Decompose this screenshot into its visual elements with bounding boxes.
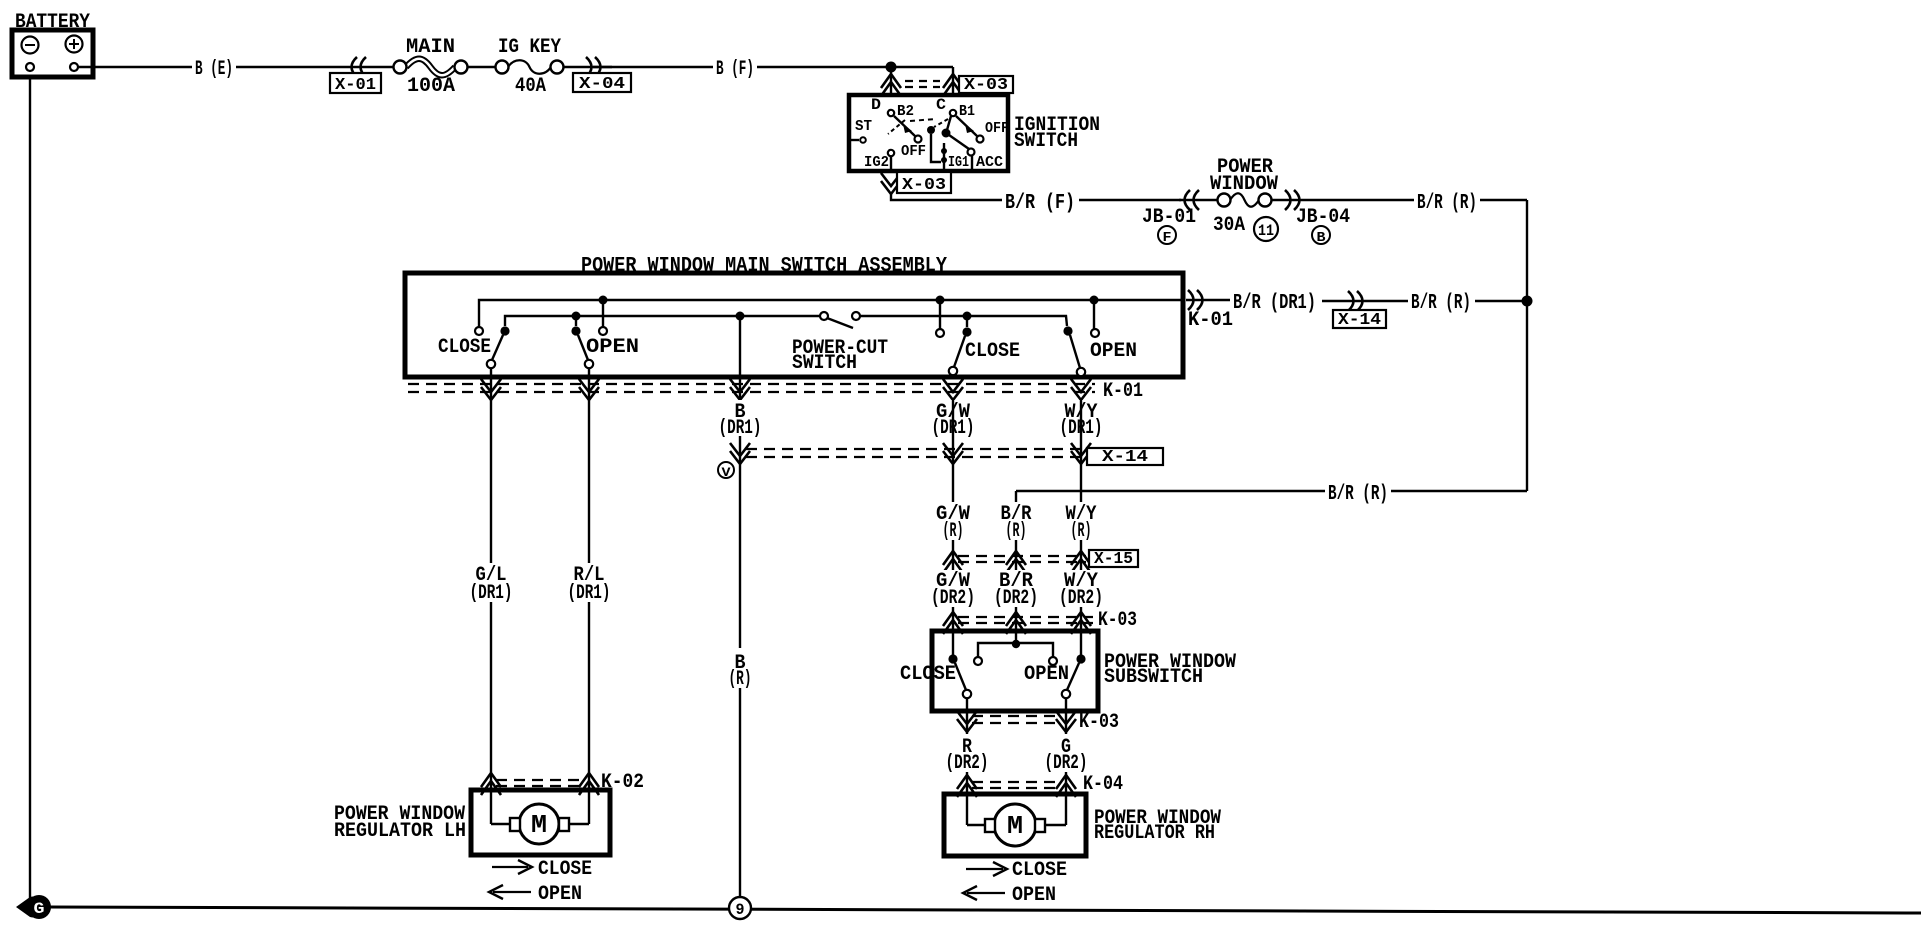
label B/R(DR1) [1233, 292, 1316, 315]
terminal IG2 [864, 150, 894, 171]
connector K-03 upper chevron 1 [943, 612, 963, 634]
ground node 9 circled [729, 897, 751, 919]
motor M LH [491, 804, 589, 844]
label X-14 row box [1087, 448, 1163, 467]
connector X-15 chevron 3 [1071, 551, 1091, 573]
label W/Y (R) column [1062, 502, 1102, 543]
wire B/R(R) X-14 to junction [1475, 300, 1527, 302]
svg-text:SWITCH: SWITCH [792, 352, 857, 375]
wire fuse MAIN to fuse IG KEY [467, 66, 496, 68]
power window regulator LH box [471, 790, 610, 855]
connector X-15 chevron 2 [1006, 551, 1026, 573]
connector K-03 lower chevron 1 [957, 711, 977, 732]
node lower bus 2 [736, 312, 745, 321]
label K-02 [601, 771, 644, 794]
label POWER WINDOW REGULATOR RH [1094, 807, 1221, 845]
main switch lower bus right [860, 316, 1067, 326]
connector JB-01 [1142, 190, 1199, 246]
svg-text:(R): (R) [1071, 520, 1092, 543]
node B/R(R) junction [1522, 296, 1533, 307]
label G/W (DR2) [930, 570, 976, 610]
connector K-01 chevron 1 [481, 379, 501, 400]
left close switch [438, 326, 510, 368]
wire B(F) branch to terminal B2 [890, 67, 892, 97]
wire JB-01 to fuse POWER WINDOW [1179, 199, 1218, 201]
label K-03 upper [1098, 609, 1137, 632]
svg-text:WINDOW: WINDOW [1210, 173, 1278, 196]
svg-text:OPEN: OPEN [538, 883, 582, 906]
wire B(F) branch to terminal B1 [952, 67, 954, 97]
svg-text:9: 9 [736, 901, 745, 919]
svg-text:(DR1): (DR1) [470, 582, 513, 605]
terminal B1 [950, 103, 975, 120]
label C [936, 96, 946, 114]
subswitch bus contact left [974, 657, 982, 665]
wire R/L(DR1) left open to regulator [588, 368, 590, 824]
svg-text:(R): (R) [943, 520, 964, 543]
svg-text:K-01: K-01 [1103, 380, 1143, 403]
arrow open LH [489, 883, 582, 906]
svg-text:(DR1): (DR1) [568, 582, 611, 605]
label B/R (R) column [997, 502, 1037, 543]
connector K-01 chevron 4 [943, 379, 963, 400]
fuse POWER WINDOW 30A [1210, 156, 1278, 237]
svg-text:M: M [1007, 811, 1023, 841]
svg-text:100A: 100A [407, 75, 455, 98]
svg-text:B (E): B (E) [195, 58, 233, 81]
connector K-04 chevron 2 [1056, 775, 1076, 797]
svg-text:SWITCH: SWITCH [1014, 130, 1078, 153]
svg-text:X-15: X-15 [1094, 550, 1133, 569]
svg-text:IG1: IG1 [948, 154, 969, 171]
svg-text:(DR2): (DR2) [994, 587, 1038, 610]
node B(F) junction [886, 62, 897, 73]
node upper bus 2 [936, 296, 945, 305]
connector K-01 chevron 2 [579, 379, 599, 400]
label B/R(R) branch [1328, 483, 1388, 506]
wire B(E) battery positive to fuse MAIN [78, 66, 394, 68]
connector K-04 chevron 1 [957, 775, 977, 797]
fuse IG KEY 40A [496, 36, 564, 98]
terminal B2 [888, 103, 914, 120]
motor M RH [967, 804, 1066, 846]
left open switch [571, 300, 639, 368]
connector K-02 chevron 2 [579, 773, 599, 795]
svg-text:CLOSE: CLOSE [438, 336, 491, 359]
ignition lever B1-ACC [942, 116, 1004, 171]
svg-text:CLOSE: CLOSE [538, 858, 592, 881]
subswitch close switch [900, 654, 971, 698]
power window subswitch box [932, 631, 1098, 711]
svg-text:IG2: IG2 [864, 154, 889, 171]
wire fuse to JB-04 [1271, 199, 1305, 201]
connector X-03 lower [881, 172, 951, 195]
wire B/R(F) ignition to junction block [891, 193, 1181, 200]
svg-text:C: C [936, 96, 946, 114]
svg-text:OFF: OFF [901, 143, 926, 160]
svg-text:B: B [1317, 230, 1327, 246]
connector K-01 exit [1186, 290, 1233, 332]
label B(F) [716, 58, 754, 81]
svg-text:X-14: X-14 [1338, 311, 1381, 330]
svg-text:ST: ST [855, 118, 872, 135]
ground symbol G [16, 895, 51, 919]
svg-text:ACC: ACC [976, 154, 1003, 171]
node lower bus 3 [963, 312, 972, 321]
connector K-04 dashes [972, 782, 1060, 788]
svg-text:B/R (DR1): B/R (DR1) [1233, 292, 1316, 315]
connector JB-04 [1285, 190, 1350, 246]
connector K-02 dashes [496, 780, 584, 786]
label D [871, 96, 881, 114]
wire B(F) X-04 to ignition switch [593, 66, 953, 68]
svg-text:(DR2): (DR2) [946, 752, 989, 775]
label B (DR1) [717, 400, 763, 440]
svg-text:OFF: OFF [985, 120, 1009, 137]
label K-04 [1083, 773, 1123, 796]
connector X-14 row dashes [746, 449, 1085, 457]
label B/R (DR2) [993, 570, 1039, 610]
svg-text:CLOSE: CLOSE [1012, 859, 1067, 882]
connector X-14 chevron 1 [730, 443, 750, 464]
svg-text:(DR2): (DR2) [1045, 752, 1088, 775]
svg-text:REGULATOR RH: REGULATOR RH [1094, 822, 1215, 845]
main switch lower bus left [505, 316, 820, 326]
terminal ST [851, 118, 872, 143]
svg-text:V: V [722, 465, 731, 480]
svg-text:40A: 40A [515, 75, 546, 98]
svg-text:B2: B2 [897, 103, 914, 120]
svg-text:K-03: K-03 [1098, 609, 1137, 632]
svg-text:CLOSE: CLOSE [965, 340, 1020, 363]
svg-text:G: G [34, 900, 45, 918]
svg-text:X-03: X-03 [964, 76, 1008, 95]
wire G/L(DR1) left close to regulator [490, 368, 492, 824]
svg-text:(DR1): (DR1) [719, 417, 762, 440]
terminal IG1 [941, 143, 969, 171]
svg-text:30A: 30A [1213, 214, 1245, 237]
label G/W (R) [934, 502, 974, 543]
arrow close LH [492, 858, 592, 881]
node upper bus 3 [1090, 296, 1099, 305]
label K-03 lower [1079, 711, 1119, 734]
wire fuse IG KEY to X-04 [563, 66, 612, 68]
label R (DR2) [944, 734, 990, 775]
label B/R(F) [1005, 192, 1075, 215]
connector K-03 upper dashes [958, 617, 1093, 623]
right close switch [936, 300, 1020, 375]
svg-text:K-01: K-01 [1188, 309, 1233, 332]
battery [12, 11, 93, 77]
svg-text:BATTERY: BATTERY [15, 11, 90, 34]
node subswitch bus [1012, 640, 1020, 648]
svg-text:SUBSWITCH: SUBSWITCH [1104, 666, 1203, 689]
svg-text:CLOSE: CLOSE [900, 663, 956, 686]
connector K-01 chevron 3 [730, 379, 750, 400]
label B (R) [724, 648, 756, 691]
svg-text:X-03: X-03 [902, 176, 946, 195]
power window main switch assembly box [405, 273, 1183, 377]
svg-text:B/R (R): B/R (R) [1411, 292, 1471, 315]
connector X-15 row dashes [958, 556, 1086, 562]
wire B/R(DR1) [1322, 300, 1408, 302]
fuse MAIN 100A [394, 36, 468, 98]
svg-text:X-14: X-14 [1102, 448, 1148, 467]
label B(E) [195, 58, 233, 81]
arrow open RH [963, 884, 1056, 907]
svg-text:OPEN: OPEN [1012, 884, 1056, 907]
svg-text:OPEN: OPEN [1090, 340, 1137, 363]
ignition lever B2 dashed [888, 119, 936, 134]
connector X-01 [330, 57, 381, 95]
node upper bus 1 [599, 296, 608, 305]
label B/R(R) top [1417, 192, 1477, 215]
wire B(DR1) center [739, 368, 741, 897]
ignition switch box [849, 95, 1008, 171]
label IGNITION SWITCH [1014, 114, 1100, 153]
ignition lever B1 dashed [927, 119, 948, 134]
svg-text:B1: B1 [959, 103, 975, 120]
svg-text:(R): (R) [729, 668, 752, 691]
wire W/Y column [1080, 399, 1082, 659]
wire battery negative to ground [29, 77, 31, 899]
svg-text:X-04: X-04 [579, 75, 625, 94]
svg-text:K-04: K-04 [1083, 773, 1123, 796]
wire G(DR2) subswitch to regulator [1065, 698, 1067, 825]
connector X-15 chevron 1 [943, 551, 963, 573]
wire IG1 link [931, 134, 941, 162]
svg-text:REGULATOR LH: REGULATOR LH [334, 820, 466, 843]
wire G/W column [952, 399, 954, 659]
subswitch open switch [1024, 654, 1086, 698]
right open switch [1063, 300, 1137, 376]
label G (DR2) [1043, 734, 1089, 775]
connector X-14 inline [1333, 291, 1386, 330]
label X-15 row box [1089, 550, 1138, 569]
wire R(DR2) subswitch to regulator [966, 698, 968, 825]
node lower bus 1 [572, 312, 581, 321]
wire IG2 to box bottom [890, 156, 892, 173]
svg-text:OPEN: OPEN [1024, 663, 1069, 686]
svg-text:B/R (R): B/R (R) [1417, 192, 1477, 215]
arrow close RH [966, 859, 1067, 882]
svg-text:X-01: X-01 [335, 76, 376, 95]
subswitch internal bus [978, 643, 1053, 659]
wire B/R(R) horizontal [1016, 490, 1527, 492]
ignition lever B2-OFF [894, 116, 926, 160]
label G/W (DR1) [930, 400, 976, 440]
connector K-03 lower dashes [972, 716, 1060, 723]
svg-text:(R): (R) [1006, 520, 1027, 543]
svg-text:OPEN: OPEN [586, 336, 639, 359]
svg-text:(DR2): (DR2) [931, 587, 975, 610]
connector K-03 upper chevron 3 [1071, 612, 1091, 634]
svg-text:B (F): B (F) [716, 58, 754, 81]
ground bus [48, 907, 1921, 913]
svg-text:B/R (F): B/R (F) [1005, 192, 1075, 215]
subswitch bus contact right [1049, 657, 1057, 665]
label POWER WINDOW SUBSWITCH [1104, 651, 1236, 689]
label B/R(R) mid [1411, 292, 1471, 315]
power-cut switch [792, 312, 888, 375]
ignition lever B1-OFF right [956, 116, 1009, 143]
label R/L (DR1) [566, 563, 612, 605]
label K-01 row [1103, 380, 1143, 403]
label G/L (DR1) [468, 563, 514, 605]
connector X-14 chevron 3 [1071, 443, 1091, 464]
svg-text:(DR2): (DR2) [1059, 587, 1103, 610]
label W/Y (DR1) [1058, 400, 1104, 440]
label POWER WINDOW REGULATOR LH [334, 803, 466, 843]
svg-text:F: F [1163, 230, 1172, 246]
wire B/R(R) down to subswitch [1015, 491, 1017, 644]
label W/Y (DR2) [1058, 570, 1104, 610]
connector K-01 chevron 5 [1071, 379, 1091, 400]
power window regulator RH box [944, 794, 1086, 856]
fuse number 11 circled [1254, 217, 1278, 241]
label POWER WINDOW MAIN SWITCH ASSEMBLY [581, 255, 947, 278]
svg-text:D: D [871, 96, 881, 114]
svg-text:MAIN: MAIN [406, 36, 455, 59]
svg-text:M: M [531, 810, 547, 840]
connector K-03 upper chevron 2 [1006, 612, 1026, 634]
wire B/R(R) right vertical [1526, 200, 1528, 491]
connector X-14 chevron 2 [943, 443, 963, 464]
wire B/R(R) JB-04 to corner [1305, 199, 1527, 201]
main switch upper bus [479, 300, 1183, 327]
connector K-03 lower chevron 2 [1056, 711, 1076, 732]
connector K-01 row dashes [408, 384, 1095, 392]
ground point V circled [718, 462, 734, 480]
connector X-04 [573, 57, 631, 94]
svg-text:11: 11 [1258, 222, 1274, 240]
svg-text:B/R (R): B/R (R) [1328, 483, 1388, 506]
wire power-cut node to B wire [739, 316, 741, 368]
svg-text:K-03: K-03 [1079, 711, 1119, 734]
connector X-03 upper [881, 74, 1013, 96]
svg-text:IG KEY: IG KEY [498, 36, 561, 59]
connector K-02 chevron 1 [481, 773, 501, 795]
